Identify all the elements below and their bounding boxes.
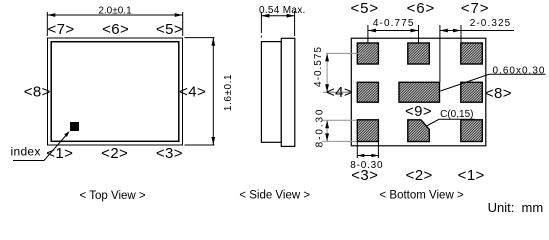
dimension 1.6±0.1 extension line top bbox=[185, 37, 215, 39]
top view inner lid outline bbox=[51, 42, 179, 142]
side view cover slab bbox=[281, 38, 295, 146]
svg-text:<7>: <7> bbox=[461, 0, 490, 17]
dimension 4-0.575 line bbox=[326, 53, 328, 92]
svg-text:index: index bbox=[11, 145, 41, 159]
dimension 0.54 arrow right bbox=[287, 14, 295, 18]
dimension 4-0.575 arrow top bbox=[325, 53, 329, 61]
dimension 2.0±0.1 arrow right bbox=[175, 13, 183, 17]
bottom view body bbox=[351, 38, 486, 146]
svg-text:<8>: <8> bbox=[485, 85, 512, 102]
dimension 1.6±0.1 arrow bottom bbox=[211, 137, 215, 145]
svg-text:< Top View >: < Top View > bbox=[80, 190, 146, 202]
label C(0,15) leader bbox=[427, 119, 475, 126]
dimension 8-0.30 bottom line bbox=[357, 155, 378, 157]
dimension 0.54 line bbox=[261, 15, 294, 17]
dimension 0.54 extension line right bbox=[294, 11, 296, 36]
dimension 8-0.30 left extension line bottom bbox=[322, 140, 357, 142]
svg-text:<4>: <4> bbox=[179, 84, 206, 101]
dimension 0.54 arrow left bbox=[261, 14, 269, 18]
svg-text:0.54 Max.: 0.54 Max. bbox=[259, 5, 306, 16]
dimension 2-0.325 extension line left bbox=[439, 25, 441, 82]
dimension 8-0.30 bottom arrow left bbox=[357, 154, 364, 157]
dimension 8-0.30 left line bbox=[326, 120, 328, 141]
svg-text:<3>: <3> bbox=[351, 167, 378, 184]
dimension 4-0.575 extension line top bbox=[326, 52, 367, 54]
pad 4 (mid-left) bbox=[357, 82, 378, 102]
svg-text:1.6±0.1: 1.6±0.1 bbox=[223, 74, 234, 111]
dimension 2-0.325 extension line right bbox=[460, 25, 462, 43]
svg-text:0.60x0.30: 0.60x0.30 bbox=[493, 65, 546, 76]
svg-text:<5>: <5> bbox=[156, 21, 183, 38]
dimension 0.54 extension line left dash-dot bbox=[260, 12, 262, 40]
svg-text:<9>: <9> bbox=[405, 103, 432, 120]
dimension 4-0.775 arrow left bbox=[368, 29, 376, 33]
index mark square bbox=[70, 122, 79, 131]
pad 1 (bottom-right) bbox=[461, 120, 483, 142]
svg-text:<4>: <4> bbox=[326, 84, 353, 101]
svg-text:2.0±0.1: 2.0±0.1 bbox=[98, 6, 132, 17]
svg-text:<8>: <8> bbox=[24, 84, 51, 101]
dimension 2-0.325 arrow right bbox=[453, 29, 461, 33]
dimension 2-0.325 line bbox=[440, 30, 514, 32]
dimension 2-0.325 arrow left bbox=[440, 29, 448, 33]
svg-text:<5>: <5> bbox=[351, 0, 380, 17]
label 0.60x0.30 leader bbox=[441, 74, 546, 91]
svg-text:8-0.30: 8-0.30 bbox=[315, 108, 326, 148]
svg-text:<2>: <2> bbox=[101, 145, 128, 162]
dimension 8-0.30 bottom extension line right bbox=[377, 142, 379, 159]
side view base slab bbox=[261, 42, 281, 143]
pad 2 (bottom-center, chamfered) bbox=[408, 120, 430, 142]
svg-text:2-0.325: 2-0.325 bbox=[470, 18, 512, 29]
svg-text:4-0.775: 4-0.775 bbox=[373, 18, 415, 29]
dimension 4-0.775 line bbox=[368, 30, 419, 32]
top view outer body bbox=[48, 38, 183, 145]
dimension 1.6±0.1 arrow top bbox=[211, 38, 215, 46]
dimension 8-0.30 left extension line top bbox=[322, 119, 357, 121]
svg-text:4-0.575: 4-0.575 bbox=[313, 46, 324, 87]
index leader wire bbox=[13, 133, 69, 161]
pad 8 (mid-right) bbox=[461, 82, 483, 102]
svg-text:<6>: <6> bbox=[407, 0, 436, 17]
pad 6 (top-center) bbox=[408, 43, 430, 64]
pad 9 (center large) bbox=[399, 82, 440, 102]
svg-text:< Bottom View >: < Bottom View > bbox=[380, 189, 464, 201]
dimension 8-0.30 bottom arrow right bbox=[371, 154, 378, 157]
dimension 4-0.775 extension line left bbox=[367, 25, 369, 43]
pad 7 (top-right) bbox=[461, 43, 483, 64]
svg-text:<2>: <2> bbox=[406, 167, 433, 184]
dimension 8-0.30 left arrow top bbox=[325, 120, 329, 128]
dimension 1.6±0.1 line bbox=[212, 38, 214, 145]
svg-text:<1>: <1> bbox=[458, 167, 485, 184]
svg-text:<3>: <3> bbox=[156, 145, 183, 162]
dimension 2.0±0.1 extension line left bbox=[46, 12, 48, 36]
dimension 8-0.30 bottom extension line left bbox=[356, 142, 358, 159]
dimension 4-0.775 extension line right bbox=[418, 25, 420, 43]
dimension 1.6±0.1 extension line bottom bbox=[185, 144, 215, 146]
svg-text:< Side View >: < Side View > bbox=[239, 189, 310, 201]
svg-text:C(0,15): C(0,15) bbox=[440, 109, 473, 120]
svg-text:<6>: <6> bbox=[102, 21, 129, 38]
dimension 4-0.775 arrow right bbox=[411, 29, 419, 33]
dimension 4-0.575 extension line bottom bbox=[323, 91, 351, 93]
dimension 4-0.575 arrow bottom bbox=[325, 84, 329, 92]
pad 3 (bottom-left) bbox=[357, 120, 378, 142]
dimension 8-0.30 left arrow bottom bbox=[325, 133, 329, 141]
index leader arrowhead bbox=[64, 131, 69, 137]
dimension 2.0±0.1 extension line right bbox=[182, 12, 184, 36]
svg-text:Unit: mm: Unit: mm bbox=[488, 200, 544, 215]
svg-text:<7>: <7> bbox=[47, 21, 74, 38]
pad 5 (top-left) bbox=[357, 43, 378, 64]
dimension 2.0±0.1 line bbox=[47, 14, 182, 16]
svg-text:<1>: <1> bbox=[46, 145, 73, 162]
dimension 2.0±0.1 arrow left bbox=[47, 13, 55, 17]
